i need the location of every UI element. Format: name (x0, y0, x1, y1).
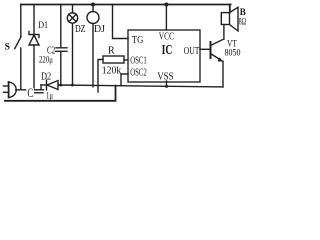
svg-text:OUT: OUT (184, 46, 200, 57)
label C (26, 86, 34, 100)
svg-text:120k: 120k (102, 65, 122, 77)
wire right border to speaker (229, 5, 231, 13)
microphone C (electret mic symbol) (4, 82, 17, 98)
wire relay DJ branch lower (92, 24, 94, 87)
svg-text:D2: D2 (41, 72, 51, 83)
svg-text:OSC2: OSC2 (130, 67, 147, 78)
svg-text:C: C (27, 86, 33, 100)
wire VSS pin (166, 81, 168, 87)
svg-text:8Ω: 8Ω (239, 17, 247, 27)
wire left border upper segment (20, 5, 22, 37)
svg-text:VSS: VSS (157, 71, 174, 82)
capacitor C2 plates (56, 48, 68, 52)
diode D2 (47, 80, 59, 90)
svg-text:VT: VT (227, 39, 237, 49)
svg-text:R: R (108, 46, 115, 57)
relay DJ (87, 12, 99, 24)
resistor R body (103, 56, 124, 63)
wire C1 to D2 (41, 84, 47, 86)
node DJ top junction (91, 3, 95, 7)
zener diode D1 (29, 32, 39, 46)
wire VCC pin (165, 5, 167, 31)
lamp DZ (67, 13, 77, 23)
transistor VT base bar (210, 42, 212, 58)
wire top VCC rail (21, 4, 231, 6)
wire TG pin from top rail (113, 5, 129, 39)
svg-text:VCC: VCC (159, 32, 174, 43)
switch S blade (15, 37, 21, 49)
wire relay DJ branch upper (92, 5, 94, 12)
svg-text:1μ: 1μ (46, 91, 53, 101)
svg-text:DZ: DZ (75, 24, 86, 35)
svg-text:S: S (5, 42, 10, 52)
node DZ-rail junction (71, 84, 74, 87)
wire R right lead to OSC1 (124, 59, 128, 61)
node C2-rail junction (59, 84, 62, 87)
svg-text:IC: IC (162, 43, 173, 58)
wire lamp DZ branch upper (72, 5, 74, 14)
wire mic to capacitor C1 (16, 89, 44, 91)
wire C2 branch lower (60, 51, 62, 85)
wire zener D1 branch (33, 5, 35, 90)
node VCC top junction (164, 3, 168, 7)
wire left border lower segment (20, 48, 22, 90)
wire bottom signal rail (58, 85, 223, 87)
wire R left lead (98, 60, 103, 93)
svg-text:8050: 8050 (225, 49, 241, 59)
wire lamp DZ branch lower (72, 23, 74, 85)
transistor VT collector (211, 25, 224, 46)
wire C2 branch upper (60, 5, 62, 48)
svg-text:TG: TG (132, 34, 144, 46)
IC U1 box (128, 30, 200, 82)
node VSS-rail junction (165, 85, 168, 88)
svg-text:DJ: DJ (94, 24, 105, 35)
svg-text:B: B (240, 7, 246, 17)
wire OUT pin to base (200, 48, 210, 50)
capacitor C1 plates (33, 92, 43, 94)
speaker B (221, 7, 238, 31)
wire OSC2 pin (121, 74, 128, 86)
svg-text:D1: D1 (38, 21, 48, 31)
wire bottom border (5, 86, 116, 101)
svg-text:220μ: 220μ (39, 54, 53, 64)
transistor VT emitter with arrow (211, 54, 224, 87)
svg-text:OSC1: OSC1 (130, 56, 147, 67)
